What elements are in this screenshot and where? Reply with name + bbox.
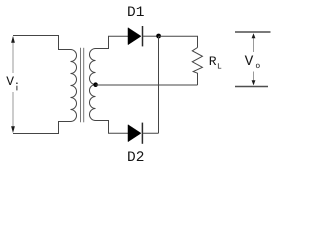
wire D2 cathode to output vertical	[142, 132, 158, 134]
label RL	[209, 54, 222, 72]
svg-text:V: V	[6, 74, 14, 89]
svg-text:L: L	[217, 63, 222, 72]
wire secondary bottom to D2 anode	[96, 121, 129, 134]
Vo up arrow	[252, 33, 256, 52]
wire output vertical (D1/D2 cathodes)	[158, 36, 160, 133]
wire bottom-left (primary bottom to Vi)	[13, 122, 71, 134]
label Vi	[5, 73, 19, 92]
wire center tap to RL bottom	[96, 84, 198, 86]
Vi dimension line	[11, 36, 15, 133]
wire output node to resistor top	[159, 36, 198, 47]
svg-text:o: o	[255, 62, 260, 71]
Vo bottom bar	[235, 86, 268, 88]
Vo down arrow	[252, 72, 256, 86]
node center tap	[93, 82, 98, 87]
transformer core	[80, 48, 82, 123]
wire top-left (Vi to primary top)	[13, 36, 71, 50]
diode D1	[128, 26, 143, 46]
Vo top bar	[235, 31, 271, 33]
svg-text:R: R	[209, 54, 217, 69]
resistor RL	[192, 48, 202, 86]
svg-text:D2: D2	[127, 150, 144, 166]
svg-text:V: V	[245, 54, 254, 70]
node output junction	[156, 34, 161, 39]
diode D2	[128, 123, 142, 144]
transformer T1 secondary winding	[90, 49, 96, 121]
svg-text:D1: D1	[127, 5, 144, 21]
wire D1 cathode to output node	[143, 35, 159, 37]
label Vo	[245, 54, 261, 71]
wire secondary top to D1 anode	[96, 36, 129, 48]
transformer T1 primary winding	[71, 50, 77, 122]
